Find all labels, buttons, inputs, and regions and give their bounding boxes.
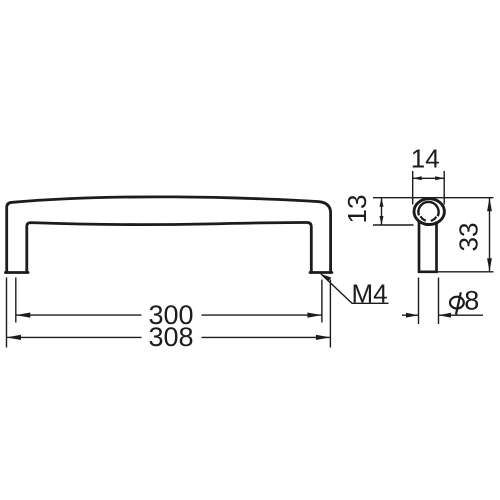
svg-text:33: 33 bbox=[453, 223, 483, 252]
svg-text:13: 13 bbox=[342, 195, 372, 224]
svg-text:308: 308 bbox=[148, 322, 193, 352]
svg-text:M4: M4 bbox=[351, 279, 387, 309]
svg-text:14: 14 bbox=[411, 144, 440, 174]
svg-text:8: 8 bbox=[464, 286, 479, 316]
